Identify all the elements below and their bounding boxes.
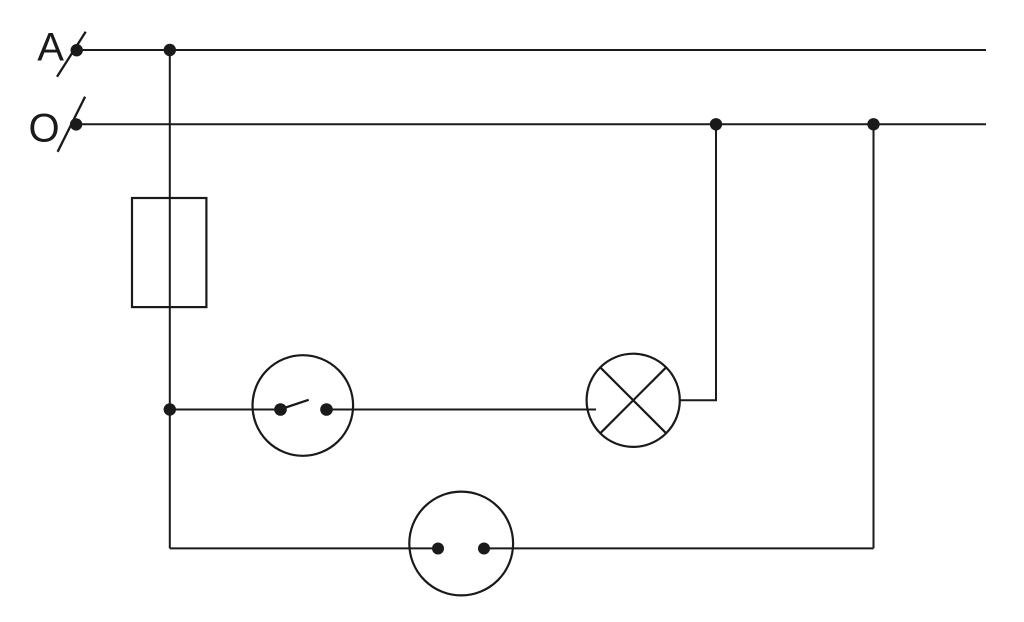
wire: switch to lamp: [327, 409, 597, 411]
socket X1: [409, 492, 513, 596]
junction dot at switch branch: [164, 403, 176, 415]
wire: branch to switch: [170, 409, 281, 411]
fuse F1: [132, 198, 206, 307]
junction dot on O at right riser: [867, 118, 879, 130]
junction dot on O at lamp riser: [710, 118, 722, 130]
wire: lamp to neutral line: [680, 124, 716, 400]
wire: phase line A: [77, 49, 986, 51]
svg-text:O: O: [29, 107, 60, 151]
wire: right riser to neutral line: [873, 124, 875, 548]
lamp E1: [587, 354, 680, 447]
terminal dot A: [71, 44, 83, 56]
wire: bottom run to socket: [170, 547, 438, 549]
wire: neutral line O: [76, 123, 986, 125]
phase terminal slash at A: [57, 32, 86, 77]
svg-text:A: A: [37, 25, 64, 69]
switch S1: [252, 355, 353, 456]
junction dot on A: [164, 44, 176, 56]
wire: socket to right riser: [484, 547, 874, 549]
wire: vertical drop from A through fuse to bottom run: [169, 50, 171, 548]
terminal dot O: [70, 118, 82, 130]
neutral terminal slash at O: [58, 97, 86, 152]
